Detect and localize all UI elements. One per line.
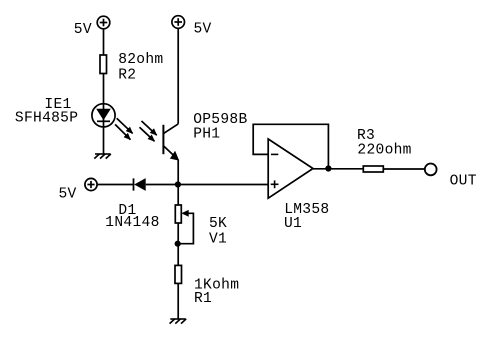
ground (under LED): [94, 154, 111, 159]
power +5V supply P1 (top left): [97, 16, 110, 29]
svg-text:5K: 5K: [209, 216, 227, 232]
wiper wire V1: [178, 213, 193, 243]
ground (under R1): [170, 319, 187, 324]
svg-text:82ohm: 82ohm: [118, 52, 163, 68]
resistor R2 body: [100, 55, 107, 74]
feedback wire output to inverting input: [253, 124, 328, 168]
junction node B: [175, 241, 181, 247]
phototransistor PH1: [163, 124, 178, 158]
wire R3 to OUT terminal: [383, 168, 425, 170]
LED IE1 symbol: [92, 104, 115, 127]
wire PH1 emitter down to node A: [177, 160, 179, 185]
wire diode anode to node A and on to op-amp + input: [146, 184, 269, 186]
svg-text:5V: 5V: [74, 22, 92, 38]
svg-text:PH1: PH1: [193, 127, 220, 143]
svg-text:SFH485P: SFH485P: [15, 111, 78, 127]
svg-text:OP598B: OP598B: [193, 112, 247, 128]
terminal OUT: [425, 164, 437, 176]
wire node A down to potentiometer V1: [177, 185, 179, 206]
wire R1 to ground: [177, 283, 179, 319]
svg-text:5V: 5V: [194, 22, 212, 38]
junction output node: [325, 165, 331, 171]
potentiometer V1 body: [175, 205, 181, 223]
op-amp U1: [268, 139, 313, 198]
svg-text:U1: U1: [284, 216, 302, 232]
svg-text:R2: R2: [118, 68, 136, 84]
wire P3 to diode cathode: [97, 184, 133, 186]
LED emitted light arrow 2: [115, 124, 130, 139]
light arrow into PH1 (1): [142, 121, 157, 135]
power +5V supply P2 (top middle): [172, 16, 185, 29]
resistor R1 body: [175, 265, 182, 283]
emitter arrowhead PH1: [170, 151, 179, 161]
wire op-amp output to R3: [313, 168, 363, 170]
wire P1 to R2: [103, 29, 105, 55]
junction node A: [175, 181, 181, 187]
LED emitted light arrow 1: [117, 118, 133, 133]
wiper arrowhead V1: [181, 210, 188, 217]
svg-text:R1: R1: [194, 291, 212, 307]
svg-text:OUT: OUT: [450, 174, 477, 190]
wire R2 to LED: [103, 74, 105, 105]
svg-text:5V: 5V: [59, 187, 77, 203]
svg-text:220ohm: 220ohm: [357, 143, 411, 159]
light arrow into PH1 (2): [140, 127, 155, 141]
wire P2 to phototransistor collector: [177, 28, 179, 124]
svg-text:V1: V1: [209, 232, 227, 248]
resistor R3 body: [363, 166, 383, 172]
diode D1: [134, 178, 146, 191]
power +5V supply P3 (left, diode bias): [85, 178, 97, 190]
svg-text:1N4148: 1N4148: [105, 215, 159, 231]
wire pot bottom through node B to R1: [177, 223, 179, 265]
wire LED to ground: [103, 127, 105, 154]
